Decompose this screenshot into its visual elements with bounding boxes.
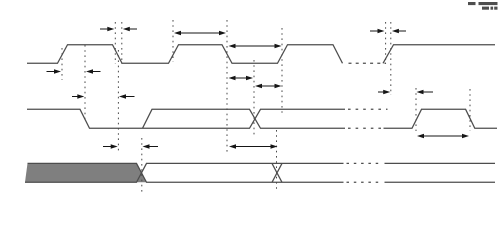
wire bus waveform outlines (bottom trace) xyxy=(25,163,495,182)
node double arrow crossover-to-rise y86 xyxy=(255,84,282,88)
node double arrow clock low pulse width y46 xyxy=(229,44,282,48)
wire middle signal right pulse xyxy=(384,109,498,128)
node guide line bus X1 x141.8 xyxy=(141,138,143,192)
node double arrow fall-to-crossover y78 xyxy=(229,76,254,80)
node guide line clock p2 mid-rise x173 xyxy=(172,20,174,62)
guide dashed verticals xyxy=(62,20,470,192)
node arrow delay rise-to-fall right y71.5 xyxy=(86,69,101,73)
arrows xyxy=(47,27,470,149)
node guide line clock p2 mid-fall x227 xyxy=(226,20,228,152)
node arrow clock-rise-to-out left y92 xyxy=(378,90,390,94)
node guide line clock p4 rise end x390.8 xyxy=(390,22,392,95)
wire middle signal time-break dashed top line xyxy=(348,108,388,110)
node guide line clock p1 mid-rise x62 xyxy=(61,48,63,80)
wire bus time-break dashed lines xyxy=(347,163,383,182)
node double arrow clock high pulse width y33 xyxy=(174,31,226,35)
node guide line middle mid-rise x416 xyxy=(415,88,417,131)
node arrow mid-fall-to-clockfall right y96.5 xyxy=(119,94,135,98)
wire bus X2 crossover xyxy=(272,163,282,182)
node arrow rise-time left y31 xyxy=(370,29,385,33)
node double arrow bus X1-to-X2 y146.5 xyxy=(229,144,278,148)
node guide line clock p1 fall end x121.8 xyxy=(121,22,123,64)
node guide line middle mid-fall x85 xyxy=(84,45,86,122)
node double arrow middle pulse width y136 xyxy=(417,134,469,138)
node bus gray invalid-data region (bottom trace) xyxy=(25,163,147,182)
node arrow fall-time left y29 xyxy=(100,27,114,31)
wire bus right solid section xyxy=(385,163,496,182)
wire middle signal waveform (second trace) xyxy=(27,109,497,128)
node arrow rise-time right y31 xyxy=(392,29,406,33)
wire clock pulse 4 rise and high xyxy=(383,45,495,64)
node arrow delay rise-to-fall left y71.5 xyxy=(47,69,62,73)
node arrow mid-fall-to-clockfall left y96.5 xyxy=(72,94,84,98)
wire clock low-level time-break dashed segment xyxy=(349,62,387,64)
node arrow fall-time right y29 xyxy=(123,27,137,31)
wire middle signal time-break dashed bottom line xyxy=(348,127,383,129)
node arrow clock-rise-to-out right y92 xyxy=(417,90,434,94)
node guide line clock p3 mid-rise x282.5 xyxy=(281,28,283,113)
node guide line clock p4 rise start x385.6 xyxy=(385,22,387,64)
node guide line middle crossover x254 xyxy=(253,60,255,136)
node guide line middle mid-fall x470 xyxy=(469,89,471,131)
node guide line bus X2 x276.5 xyxy=(276,130,278,192)
node guide line clock p1 mid-fall x118.4 xyxy=(117,50,119,151)
node arrow bus access right y146.5 xyxy=(143,144,159,148)
node arrow bus access left y146.5 xyxy=(103,144,118,148)
node guide line clock p1 fall start x115.3 xyxy=(114,22,116,64)
node doc-number text top right xyxy=(468,2,498,10)
wire clock waveform CLK (top trace) xyxy=(27,45,495,64)
